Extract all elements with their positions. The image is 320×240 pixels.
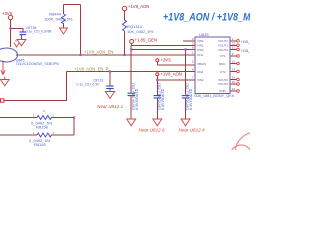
svg-text:+1V8_AON_EN_R: +1V8_AON_EN_R: [74, 67, 109, 72]
svg-text:+1V8_SW2: +1V8_SW2: [241, 49, 251, 53]
svg-text:ON2: ON2: [197, 70, 204, 74]
svg-text:1: 1: [33, 114, 35, 118]
svg-text:0.1u_C0J_6.3V: 0.1u_C0J_6.3V: [77, 82, 101, 86]
svg-text:CT1: CT1: [220, 54, 226, 58]
svg-text:10K_0402_5%: 10K_0402_5%: [127, 29, 154, 34]
svg-text:VOUT2: VOUT2: [218, 78, 228, 82]
svg-text:+3VS: +3VS: [161, 58, 172, 63]
svg-text:VIN1: VIN1: [197, 39, 204, 43]
svg-text:Near U812.6: Near U812.6: [139, 128, 165, 133]
svg-text:6.3V ROUTD: 6.3V ROUTD: [161, 88, 165, 110]
svg-text:+1V8_AON: +1V8_AON: [128, 4, 149, 9]
svg-text:VOUT1: VOUT1: [218, 39, 228, 43]
svg-text:5: 5: [192, 60, 194, 64]
svg-text:U845: U845: [199, 32, 209, 37]
svg-text:VIN2: VIN2: [197, 48, 204, 52]
svg-text:R8150: R8150: [34, 142, 47, 147]
svg-text:+1V8_AON / +1V8_MA: +1V8_AON / +1V8_MA: [163, 11, 250, 23]
svg-text:R8158: R8158: [36, 125, 49, 130]
svg-text:3: 3: [192, 42, 194, 46]
svg-text:0.1u_C0J_6.3V6K: 0.1u_C0J_6.3V6K: [26, 30, 53, 34]
svg-text:GND: GND: [219, 89, 227, 93]
svg-text:ON1: ON1: [197, 53, 204, 57]
svg-text:+1V8_SW1: +1V8_SW1: [241, 40, 251, 44]
svg-text:S08_1881_BGNY_QFA: S08_1881_BGNY_QFA: [194, 94, 234, 98]
svg-text:100K_0402_5%: 100K_0402_5%: [44, 17, 73, 22]
svg-text:CT2: CT2: [220, 70, 226, 74]
svg-text:VOUT2: VOUT2: [218, 48, 228, 52]
svg-text:74LVC1G08GW_T&BOP6: 74LVC1G08GW_T&BOP6: [16, 62, 59, 66]
svg-text:DNC: DNC: [219, 62, 226, 66]
svg-text:VBIAS: VBIAS: [197, 62, 206, 66]
svg-text:0: 0: [43, 109, 45, 113]
svg-text:2: 2: [53, 114, 55, 118]
svg-text:2: 2: [53, 131, 55, 135]
svg-text:1: 1: [33, 131, 35, 135]
svg-text:VIN2: VIN2: [197, 78, 204, 82]
svg-text:+1.8S_GEN: +1.8S_GEN: [135, 38, 157, 43]
svg-text:7: 7: [192, 76, 194, 80]
svg-text:6.3V ROUTD: 6.3V ROUTD: [189, 88, 193, 110]
svg-text:VOUT2: VOUT2: [218, 82, 228, 86]
svg-text:Near U812.4: Near U812.4: [179, 128, 205, 133]
svg-text:Near U812.1: Near U812.1: [97, 104, 123, 109]
svg-text:+1V8_AON: +1V8_AON: [161, 72, 182, 77]
svg-text:6.3V ROUTD: 6.3V ROUTD: [135, 88, 139, 110]
svg-text:+1V8_AON_EN: +1V8_AON_EN: [84, 50, 113, 55]
svg-text:1: 1: [192, 51, 194, 55]
svg-text:+3VS: +3VS: [2, 11, 13, 16]
